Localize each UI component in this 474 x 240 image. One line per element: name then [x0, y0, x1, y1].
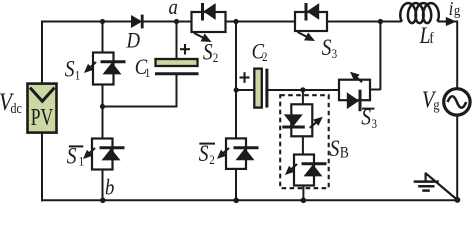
wire SB branch tap down to top switch	[302, 90, 304, 105]
svg-text:f: f	[429, 30, 434, 47]
svg-text:S: S	[203, 39, 213, 65]
svg-text:3: 3	[372, 116, 378, 131]
wire top rail S2 to junction	[226, 21, 237, 23]
node b junction	[100, 198, 106, 204]
label S3bar	[361, 104, 377, 131]
wire right vertical Vg to bottom corner	[456, 115, 458, 200]
wire S1 branch mid junction to S1bar	[102, 107, 104, 139]
label C1	[135, 56, 151, 81]
label Vdc	[0, 88, 22, 116]
node junction S1-S1bar midpoint	[100, 104, 105, 109]
svg-text:1: 1	[79, 153, 85, 168]
label S1bar	[67, 143, 84, 169]
switch S1bar	[83, 139, 125, 170]
node a junction	[174, 19, 179, 24]
node junction top of S1 branch	[100, 19, 105, 24]
svg-text:dc: dc	[11, 100, 22, 117]
label node a	[169, 0, 178, 19]
svg-text:2: 2	[262, 49, 268, 64]
svg-text:g: g	[454, 3, 460, 19]
label ig	[449, 0, 461, 20]
capacitor C1	[155, 59, 199, 74]
node junction S2bar bottom	[233, 198, 239, 204]
wire inductor to right corner	[438, 21, 458, 23]
switch S1	[84, 53, 126, 85]
ground symbol	[414, 173, 458, 200]
wire top rail S3 to junction	[327, 21, 382, 23]
svg-text:b: b	[105, 176, 114, 200]
node junction SB tap	[300, 87, 305, 92]
label Vg	[422, 86, 440, 114]
svg-text:a: a	[169, 0, 178, 19]
wire top rail left segment	[41, 21, 103, 23]
capacitor C2	[254, 69, 267, 108]
wire S2bar branch rail down to C2 tap	[235, 22, 237, 91]
label S1	[65, 56, 81, 83]
wire SB branch between switches	[302, 136, 304, 155]
label S3	[322, 34, 338, 61]
label D	[126, 29, 141, 53]
plus sign of C1	[180, 44, 190, 55]
wire top rail junction to diode D	[103, 21, 132, 23]
svg-text:D: D	[126, 29, 141, 53]
wire top rail node a to S2	[177, 21, 192, 23]
wire SB tap to S3bar	[303, 89, 340, 91]
svg-text:2: 2	[209, 152, 215, 167]
wire left vertical branch of Vdc top	[41, 21, 43, 86]
node bottom-right corner junction	[455, 197, 461, 203]
label S2bar	[199, 141, 215, 168]
wire S2bar branch S2bar to bottom rail	[235, 169, 237, 200]
wire C2 right to SB tap	[268, 89, 303, 91]
node junction C2 tap	[234, 87, 239, 92]
switch S2	[192, 3, 226, 42]
svg-text:PV: PV	[31, 103, 53, 130]
wire S1 branch S1bar to node b	[102, 170, 104, 201]
wire S1 branch S1 to mid junction	[102, 84, 104, 107]
wire C1 bottom horizontal to mid junction	[103, 106, 178, 108]
wire SB branch bottom switch to rail	[302, 186, 304, 201]
wire C2 left stub	[236, 89, 255, 91]
node junction top of S2bar branch	[233, 19, 238, 24]
wire top rail D to node a	[143, 21, 177, 23]
label C2	[252, 40, 268, 64]
label SB	[330, 136, 349, 162]
node junction top of S3bar branch	[378, 19, 383, 24]
plus sign of C2	[240, 72, 250, 83]
wire left vertical branch of Vdc bottom	[41, 132, 43, 201]
switch SB bottom	[285, 155, 327, 186]
svg-text:S: S	[322, 34, 332, 60]
svg-text:S: S	[65, 56, 75, 82]
label node b	[105, 176, 114, 200]
label Lf	[419, 22, 434, 48]
current arrow ig	[439, 17, 457, 26]
switch S3bar	[339, 72, 370, 112]
dashed box of bidirectional switch SB	[280, 95, 329, 188]
switch S2bar	[217, 138, 259, 169]
svg-text:2: 2	[213, 50, 219, 65]
wire bottom rail	[41, 199, 459, 201]
wire top rail junction to S3	[236, 21, 295, 23]
svg-text:3: 3	[332, 46, 338, 61]
switch S3	[295, 3, 327, 41]
label S2	[203, 39, 218, 65]
wire S1 branch rail to S1	[102, 22, 104, 53]
wire node a down to C1	[176, 22, 178, 60]
svg-text:1: 1	[75, 68, 81, 83]
AC grid source Vg	[444, 89, 470, 115]
diode D	[131, 15, 142, 29]
svg-text:i: i	[449, 0, 454, 20]
wire top rail junction to inductor	[380, 21, 401, 23]
svg-text:B: B	[340, 144, 349, 161]
switch SB top	[282, 104, 323, 136]
svg-text:g: g	[433, 98, 439, 114]
inductor Lf	[400, 3, 439, 23]
wire S2bar branch C2 tap to S2bar	[235, 90, 237, 139]
PV source	[28, 84, 57, 133]
svg-text:S: S	[330, 136, 340, 162]
node junction SB bottom	[301, 198, 307, 204]
wire right vertical corner to Vg	[456, 21, 458, 89]
wire S3bar right stub	[370, 89, 380, 91]
wire S3bar branch rail down	[379, 22, 381, 91]
svg-text:1: 1	[145, 65, 151, 80]
wire C1 bottom down	[176, 74, 178, 107]
